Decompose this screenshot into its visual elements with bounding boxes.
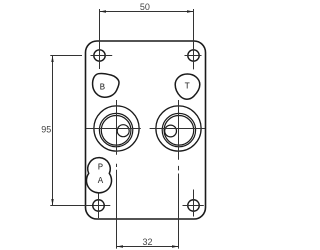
mounting hole top-right [188,50,199,61]
mounting hole bottom-right horizontal centerline [183,205,204,207]
right main port vertical centerline (short dash) [178,166,180,171]
right main port counterbore circle [162,113,195,146]
svg-text:B: B [100,82,106,92]
left main port horizontal centerline [86,128,141,130]
right main port offset drill hole [165,125,177,137]
right main port vertical centerline (lower segment to 32 dimension) [178,174,180,249]
dimension 32 left arrow [117,245,124,247]
dimension 32 line [117,246,179,248]
mounting hole bottom-right [188,200,200,212]
left main port outer circle [94,106,139,151]
left main port vertical centerline (lower segment to 32 dimension) [116,170,118,249]
right main port thread circle [164,116,194,146]
svg-text:32: 32 [142,237,152,247]
mounting hole top-left horizontal centerline [91,55,113,57]
plate outline [86,41,206,219]
dimension 95 top arrow [51,56,53,63]
dimension 95 top extension line [50,55,82,57]
left main port thread circle [101,116,131,146]
svg-text:95: 95 [41,125,51,135]
dimension 50 left arrow [100,10,107,12]
right main port horizontal centerline [150,128,206,130]
mounting hole top-left vertical centerline / extension [99,9,101,69]
mounting hole bottom-left [93,200,105,212]
dimension 95 bottom arrow [51,199,53,206]
svg-text:P: P [98,162,103,172]
left main port counterbore circle [99,113,132,146]
left main port vertical centerline (upper segment) [116,100,118,155]
svg-text:50: 50 [140,2,150,12]
port T cavity outline [175,74,200,99]
mounting hole bottom-left vertical centerline [98,194,100,219]
mounting hole top-left [94,50,105,61]
left main port vertical centerline (short dash) [116,164,118,167]
mounting hole top-right horizontal centerline [185,55,202,57]
svg-text:A: A [98,176,104,186]
dimension 50 right arrow [187,10,194,12]
svg-text:T: T [184,81,190,91]
dimension 32 right arrow [172,245,179,247]
mounting hole bottom-right vertical centerline [193,190,195,217]
left main port offset drill hole [117,125,129,137]
dimension 50 line [100,11,194,13]
right main port vertical centerline (upper segment) [178,100,180,160]
dimension 95 line [52,56,54,206]
dimension 95 bottom extension line (through bottom-left hole) [50,205,110,207]
right main port outer circle [156,106,201,151]
port B cavity outline [93,73,119,97]
P/A cavity outline (snowman) [86,158,111,193]
mounting hole top-right vertical centerline / extension [193,9,195,69]
